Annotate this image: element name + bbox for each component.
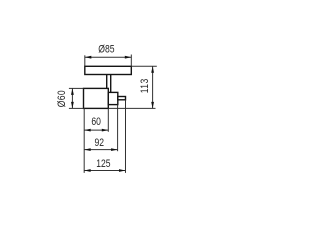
lamp body [84, 88, 109, 108]
arrow 125 left [84, 169, 91, 172]
svg-text:113: 113 [139, 78, 151, 93]
arrow 92 right [111, 148, 118, 151]
canopy plate [85, 66, 132, 74]
arrow d60 down [71, 102, 74, 109]
arrow 113 down [151, 102, 154, 109]
dim line 60 [84, 129, 108, 131]
arrow d85 right [125, 56, 132, 59]
arrow 60 left [84, 129, 91, 132]
ext vertical bar right down [124, 100, 126, 173]
svg-text:60: 60 [91, 116, 101, 128]
ext line 113 bottom [108, 107, 155, 109]
svg-text:125: 125 [96, 158, 111, 170]
svg-text:Ø85: Ø85 [98, 44, 115, 56]
stem [107, 74, 111, 92]
holder bar [118, 97, 126, 100]
ext line 113 top [131, 65, 157, 67]
ext vertical body right down [107, 108, 109, 131]
arrow 92 left [84, 148, 91, 151]
ext vertical left of dims [83, 108, 85, 172]
ext vertical joint right down [117, 105, 119, 152]
arrow 125 right [119, 169, 126, 172]
dim line 113 [152, 66, 154, 108]
arrow d85 left [85, 56, 92, 59]
dim line 92 [84, 149, 117, 151]
arrow 60 right [102, 129, 109, 132]
arrow d60 up [71, 88, 74, 95]
ext lines d60 [69, 87, 84, 89]
ext line plate right up [130, 55, 132, 67]
svg-text:Ø60: Ø60 [56, 90, 68, 107]
dim line 125 [84, 169, 125, 171]
dim line d60 [71, 88, 73, 108]
ext line plate left up [84, 55, 86, 66]
svg-text:92: 92 [95, 137, 105, 149]
joint [108, 92, 118, 104]
dim line d85 [85, 56, 131, 58]
arrow 113 up [151, 66, 154, 73]
